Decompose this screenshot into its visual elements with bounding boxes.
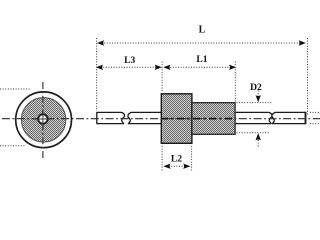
dimension arrow D2 bottom	[256, 133, 261, 148]
svg-text:L2: L2	[171, 154, 182, 165]
horizontal center line	[2, 118, 320, 120]
extension line mid L3/L1	[161, 62, 163, 93]
extension line L2 right	[191, 146, 193, 172]
front view hub circle	[38, 114, 47, 123]
center mark cross	[34, 110, 53, 129]
dimension line L	[97, 40, 306, 45]
svg-text:D2: D2	[250, 82, 262, 93]
dimension line L3	[96, 65, 162, 70]
svg-text:L3: L3	[124, 55, 135, 66]
shaft piece 3	[234, 112, 272, 123]
projection line bottom-left	[0, 145, 25, 147]
shaft piece 4	[272, 112, 306, 124]
extension line L2 left	[161, 146, 163, 172]
extension line right L1	[234, 62, 236, 102]
extension line right for L	[307, 38, 309, 116]
phantom shaft edge bottom right	[310, 123, 320, 125]
vertical center line of front view	[42, 82, 44, 159]
collar block hatched	[161, 94, 192, 144]
svg-text:L: L	[199, 24, 206, 35]
hub cross	[39, 115, 47, 123]
front view hatched disc	[21, 98, 65, 142]
shaft piece 1	[97, 112, 125, 123]
extension line D2 top	[237, 102, 272, 104]
shaft piece 2	[128, 112, 163, 123]
cylinder block hatched	[192, 103, 235, 135]
projection line top-left	[0, 88, 31, 90]
phantom shaft edge top right	[310, 111, 320, 113]
dimension line L1	[163, 65, 236, 70]
center line heavy over blocks	[161, 118, 236, 120]
extension line D2 bottom	[237, 132, 271, 134]
dimension arrow D2 top	[256, 91, 261, 103]
front view outer circle	[16, 92, 72, 148]
svg-text:L1: L1	[196, 54, 207, 65]
dimension line L2	[163, 164, 190, 169]
extension line left for L	[96, 38, 98, 111]
